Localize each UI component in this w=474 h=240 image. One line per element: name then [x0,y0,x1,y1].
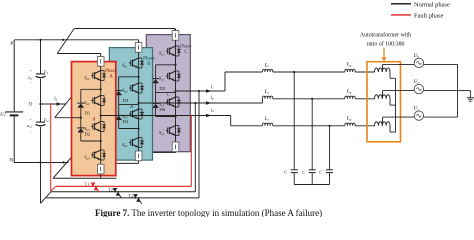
svg-text:E/2: E/2 [0,112,6,117]
current arrow ic [206,85,214,93]
wire phase C rail [175,40,177,142]
node O label [29,102,33,108]
autotransformer box [367,62,401,142]
AC source Ub [414,84,423,93]
label T1 [84,182,90,187]
wire N bus A level [53,177,117,179]
current arrow id on O bus [54,96,62,105]
AC source Uc [414,111,423,120]
label Phase A [105,69,117,80]
node A output junction [100,114,102,116]
label Lg line 3 [346,115,352,121]
diode D1 [77,103,84,108]
label Sa2 [84,100,90,106]
node B label [130,105,133,110]
svg-text:Phase: Phase [105,69,117,74]
label Lc line 1 [264,62,270,68]
wire C clamp mid [155,83,157,103]
label D4 [123,119,129,124]
fuse phase B top [135,43,142,53]
wire O bus A level [55,117,81,119]
node cap tap line1 [293,71,295,73]
svg-text:ratio of 100:380: ratio of 100:380 [367,41,405,48]
label Ub [414,79,420,85]
label Lc line 3 [264,116,270,122]
IGBT Sa2 [91,96,106,106]
current arrow ib [206,96,214,105]
svg-text:Phase: Phase [143,56,155,61]
wire P bus diagonal [57,29,74,54]
svg-text:T2: T2 [108,188,114,193]
label Sb3 [122,114,128,120]
label Lg line 2 [346,88,352,94]
wire B clamp mid [118,95,120,115]
wire B clamp top link [119,76,140,91]
inductor Lc line 3 [262,123,344,126]
wire Ub to grid bus [424,90,458,92]
wire A clamp mid [80,108,82,128]
wire phase A rail [100,66,102,164]
label Sa1 [84,75,90,81]
inductor Lg line 2 [345,96,375,99]
diode D2 [77,128,84,133]
label D6 [159,107,165,112]
svg-text:−: − [30,81,32,85]
label C1 polarity [28,69,33,85]
IGBT Sc3 [166,97,181,107]
label C filter 2 [302,169,306,174]
wire O bus B level [41,103,67,105]
node N label [9,158,13,164]
svg-text:Phase: Phase [180,44,192,49]
svg-text:D5: D5 [159,86,165,91]
wire P rail [14,39,138,41]
AC source Ua [414,58,423,67]
svg-text:D2: D2 [85,131,91,136]
wire T3 bus [46,197,199,199]
label Lc line 2 [264,89,270,95]
label Phase B [143,56,155,67]
caption [95,208,322,218]
wire Ua to grid bus [424,63,458,65]
IGBT Sa4 [91,150,106,160]
label D3 [123,98,129,103]
node P label [10,41,13,47]
label Ua [414,53,420,59]
thyristor pair T2 [113,188,122,198]
capacitor C1 [36,74,46,78]
svg-text:D3: D3 [123,98,129,103]
battery Vdc [0,112,23,117]
label Sc3 [159,102,165,108]
label C1 [44,69,49,75]
wire P drop to phase B fuse [138,40,140,44]
svg-text:A: A [91,118,95,123]
wire C clamp bottom link [156,108,177,118]
wire N bus C level [153,152,176,154]
capacitor C filter 2 [309,170,316,185]
fuse phase C top [172,31,179,41]
label Phase C [180,44,192,55]
legend fault-phase sample line [391,14,411,16]
wire O bus diagonal [55,96,73,118]
fuse phase A bottom stem [100,174,102,178]
autotransformer common lead [395,78,397,132]
svg-text:Fault phase: Fault phase [414,13,443,20]
inductor Lc line 1 [262,69,344,72]
wire phase C output [176,72,263,91]
IGBT Sb2 [129,83,144,93]
label Lg line 1 [346,62,352,68]
diode D6 [152,103,159,108]
wire fault diagonal (red) [51,186,56,191]
phase B module box [109,48,152,161]
svg-text:id: id [54,96,57,101]
label Sb1 [122,63,128,69]
node A label [91,118,95,123]
wire left DC spine lower [13,116,15,162]
svg-text:Figure 7. The inverter topolog: Figure 7. The inverter topology in simul… [95,208,322,217]
thyristor pair T1 [91,183,100,193]
wire T2 riser to phase B line [194,102,196,192]
autotransformer winding a [375,68,396,78]
wire N rail [14,162,68,164]
capacitor C2 [36,122,46,126]
wire N bus diagonal [53,153,75,178]
wire phase B rail [138,52,140,151]
svg-text:+: + [29,118,31,122]
phase A module box [72,62,116,176]
svg-text:Normal phase: Normal phase [414,2,450,9]
wire T1 bus (red) [56,185,192,187]
wire B clamp bottom link [119,120,140,130]
wire C2-N [40,127,42,163]
label Uc [414,106,420,112]
svg-text:T3: T3 [128,194,134,199]
svg-text:Autotransformer with: Autotransformer with [360,32,411,39]
wire fault drop from O (red) [50,103,52,191]
svg-text:P: P [10,41,13,47]
wire phase B output [139,99,263,103]
ground [458,91,474,102]
label Sa4 [84,155,90,161]
autotransformer tap b [383,91,415,99]
svg-text:+: + [30,69,32,73]
thyristor pair T3 [133,194,142,204]
capacitor C filter 1 [291,170,298,185]
diode D4 [115,115,122,120]
capacitor C filter 3 [326,170,333,185]
IGBT Sc2 [166,71,181,81]
fuse phase A top stem [100,54,102,57]
wire grid bus vertical [457,64,459,117]
phase C module box [146,35,190,152]
svg-text:D1: D1 [85,110,91,115]
svg-text:A: A [109,75,113,80]
node O junction [39,103,41,105]
autotransformer winding b [375,95,396,105]
label C filter 3 [319,169,323,174]
IGBT Sa1 [91,71,106,81]
wire P bus low level to phase A [57,53,100,55]
node B output junction [138,102,140,104]
node junction P-diagonal [62,39,64,41]
fuse phase B bottom [135,151,142,161]
wire cap branch 2 [311,99,313,170]
wire T3 riser to phase C line [198,90,200,198]
annotation arrow to autotransformer [382,48,387,62]
label Sb4 [122,142,128,148]
svg-text:B: B [130,105,133,110]
IGBT Sb4 [129,138,144,148]
node cap tap line3 [328,125,330,127]
label D1 [85,110,91,115]
inductor Lc line 2 [262,96,344,99]
node junction P-C1 [39,39,41,41]
svg-text:D4: D4 [123,119,129,124]
svg-text:O: O [29,102,33,108]
label Sb2 [122,88,128,94]
svg-text:ia: ia [211,108,214,113]
node C label [167,93,171,98]
label Sc2 [159,76,165,82]
label C2 polarity [27,118,32,134]
wire C2 string upper [40,104,42,122]
label T3 [128,194,134,199]
IGBT Sb1 [129,58,144,68]
autotransformer tap c [383,117,415,126]
autotransformer winding c [375,122,396,132]
wire C1 string upper [40,40,42,74]
svg-text:D6: D6 [159,107,165,112]
legend normal-phase sample line [391,3,411,5]
wire C clamp top link [156,64,177,79]
svg-text:N: N [9,158,13,164]
wire T3 bus drop from O string [40,163,42,204]
wire T1 riser to phase A line (red) [190,115,192,187]
svg-text:T1: T1 [84,182,90,187]
diode D3 [115,91,122,96]
legend label Normal phase [414,2,450,9]
fuse phase A bottom [97,164,104,174]
diode D5 [152,79,159,84]
inductor Lg line 3 [345,123,375,126]
wire A clamp bottom link [81,132,102,142]
wire O entry into phase A [72,117,82,119]
annotation autotransformer text [360,32,411,48]
label Sc4 [159,130,165,136]
legend label Fault phase [414,13,443,20]
wire C clamp mid to rail [156,92,176,94]
wire T3 bus diagonal [41,192,51,204]
node junction N-string [39,161,41,163]
wire cap branch 1 [293,72,295,170]
wire phase A output [101,116,263,126]
fuse phase C top stem [175,29,177,31]
fuse phase C bottom [172,142,179,152]
wire B clamp mid to rail [119,104,139,106]
current arrow ia [206,108,214,117]
label T2 [108,188,114,193]
label Sc1 [159,51,165,57]
wire N bus B level [116,162,139,164]
IGBT Sc1 [166,46,181,56]
wire C1-O [40,79,42,104]
IGBT Sb3 [129,109,144,119]
inductor Lg line 1 [345,69,375,72]
wire P bus top level to phase C [74,29,175,33]
wire cap branch 3 [329,126,331,170]
label D2 [85,131,91,136]
wire T2 bus [51,191,195,193]
node junction N-diag [62,161,64,163]
fuse phase A top [97,57,104,67]
label C filter 1 [284,169,288,174]
fuse phase B top stem [138,40,140,43]
label Sa3 [84,126,90,132]
label C2 [44,117,49,123]
label D5 [159,86,165,91]
autotransformer tap a [383,64,415,72]
wire left DC spine upper [13,40,15,112]
wire Uc to grid bus [424,116,458,118]
IGBT Sc4 [166,126,181,136]
IGBT Sa3 [91,122,106,132]
svg-text:−: − [30,130,32,134]
fuse phase C bottom stem [175,151,177,154]
fuse phase B bottom stem [138,161,140,164]
svg-text:ib: ib [211,96,214,101]
node cap tap line2 [311,98,313,100]
wire filter cap common rail [294,184,329,186]
wire A clamp top link [81,88,102,103]
node C output junction [174,90,176,92]
